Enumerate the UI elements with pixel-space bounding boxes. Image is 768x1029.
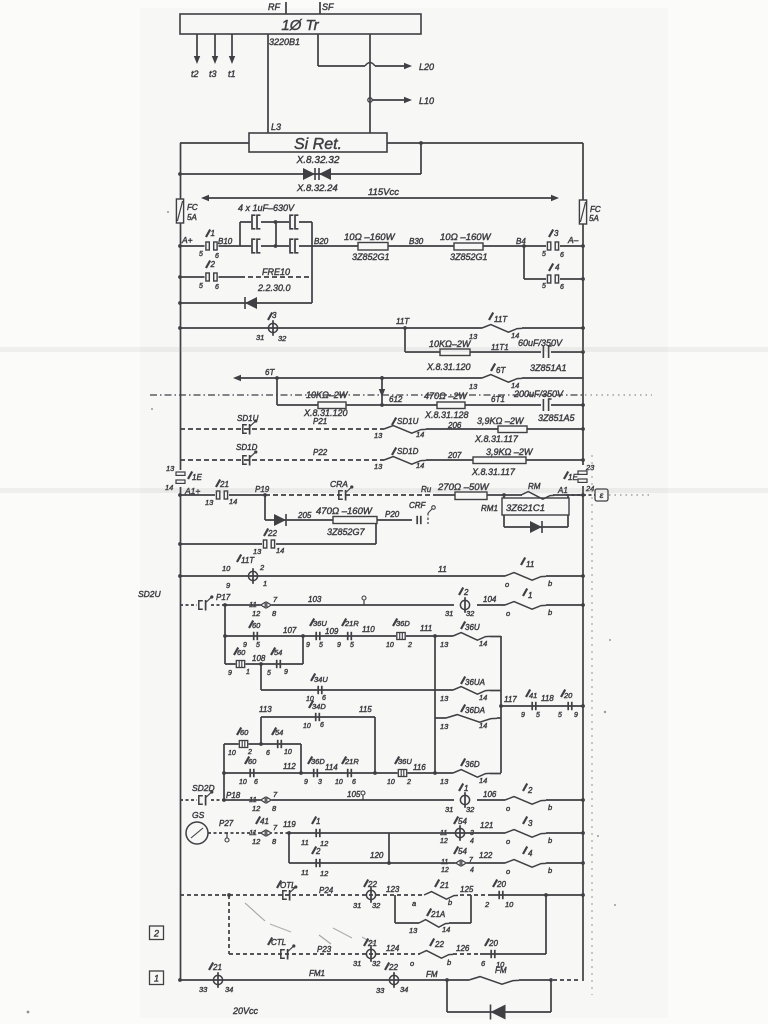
wire scan noise column (27, 455, 592, 1013)
contact 21R (10-6) lower (335, 757, 359, 787)
wire Si Ret to left rail (180, 142, 249, 144)
node row544 rail (178, 542, 182, 546)
node row773 junction 435 (433, 771, 437, 775)
wire left rail upper (180, 143, 182, 470)
node 113 bottom junction (259, 742, 263, 746)
label 41 flag (256, 817, 269, 827)
wire riser P19 to row520 (264, 495, 266, 520)
label 119 (283, 820, 296, 829)
wire row 773 (224, 772, 435, 774)
label 110 (362, 625, 375, 634)
connector pins 11-7/12-8 row800 (249, 790, 278, 813)
contact 21R (9-5) (337, 619, 359, 650)
wire riser 119 833-863 (288, 833, 290, 863)
contact 34U (10-6) (306, 674, 328, 704)
wire riser 744-773 (300, 744, 302, 773)
label B20 (314, 237, 329, 246)
contact SD2D pressure (199, 790, 214, 805)
capacitor C-top-left (251, 215, 261, 230)
diode pair X.8.32.24 (296, 168, 338, 194)
contact 1 (31-32) phi (445, 784, 475, 815)
contact 60 (9-5) (243, 621, 261, 650)
wire row 605 (225, 604, 583, 606)
connector 54 row863 (441, 847, 474, 875)
contact 21 (31-32) phi ctl (353, 939, 381, 969)
node P18 junction (222, 798, 226, 802)
label Ru (421, 485, 432, 494)
switch 36UA (13-14) (440, 677, 490, 704)
contact 1 (5-6) (199, 229, 219, 260)
wire vert P17-664 (224, 605, 226, 664)
contact 3 (31-32) phi (256, 311, 287, 343)
wire FM diode loop (447, 980, 551, 1012)
label 207 (447, 451, 462, 460)
rectifier Si Ret box (249, 133, 387, 166)
wire Tr to Si Ret left (267, 34, 269, 133)
label 116 (413, 763, 426, 772)
node 108 junction (259, 662, 263, 666)
fuse FC 5A left (176, 199, 197, 223)
wire GS dash to P27 (208, 832, 225, 834)
label A1+ (184, 486, 200, 496)
wire row OTL right solid (488, 894, 583, 896)
diode D row520 (274, 514, 286, 526)
wire 36U switch stubs (435, 635, 501, 638)
contact 54 (5-9) (267, 648, 288, 678)
node B4 junction (522, 244, 526, 248)
label 115 (359, 705, 372, 714)
wire FM switch to 551 (519, 979, 551, 981)
node junction right of Si Ret (419, 141, 423, 145)
testpoint P27 (225, 833, 229, 842)
node row328 right rail (581, 326, 585, 330)
terminal E box (583, 489, 652, 501)
wire riser 277 to 405 (276, 378, 278, 405)
label 109 (325, 627, 339, 636)
wire 36D switch stubs (435, 772, 501, 775)
label 205 (297, 511, 312, 520)
wire row 328 (180, 327, 583, 329)
wire dashed vert OTL-CTL (228, 895, 230, 954)
contact 36U (9-5) (306, 619, 327, 650)
wire SF input tick (320, 2, 334, 14)
resistor 3.9K-2W upper (474, 416, 527, 444)
label 122 (479, 851, 493, 860)
label P27 (219, 819, 234, 828)
node A1+ rail (178, 493, 182, 497)
contact 20 (2-10) (484, 880, 514, 910)
contact 36D square (10-2) (386, 619, 412, 650)
contact 36U square (10-2) (387, 757, 412, 787)
wire row 6T with left arrow (233, 375, 583, 381)
wire left rail lower (180, 487, 182, 980)
label 125 (460, 885, 474, 894)
wire row CTL right solid (480, 953, 546, 955)
wire dash-dot section line (150, 394, 652, 396)
wire 115Vcc span arrow (201, 187, 559, 201)
node row800 rail (581, 798, 585, 802)
wire RF input tick (268, 2, 286, 14)
node 636 left (223, 634, 227, 638)
contact 1 (11-12) (301, 817, 329, 849)
wire diode row X.8.32.24 (180, 143, 421, 174)
switch 21A (13-14) (409, 909, 450, 936)
wire t1 arrow (228, 34, 236, 79)
wire t3 arrow (209, 34, 218, 79)
contact 21 (33-34) phi fm (199, 963, 233, 995)
testpoint row800 (361, 791, 365, 800)
wire left vert 224 744-800 (223, 744, 225, 800)
wire row 576 (180, 575, 583, 577)
contact 11T phi (10-2/9-1) (222, 555, 267, 591)
label 206 (447, 421, 462, 430)
label 105 (347, 790, 361, 799)
node row2 left rail (178, 275, 182, 279)
wire SD2U to P17 (211, 604, 225, 606)
wire row 664 (225, 663, 303, 665)
wire row 717 (261, 716, 375, 718)
label P23 (317, 945, 332, 954)
label 118 (541, 694, 554, 703)
label 612 (389, 395, 403, 404)
switch 11T (13-14) (469, 313, 522, 342)
contact 21 (13-14) (205, 480, 237, 508)
wire scan paper tint (140, 8, 668, 1018)
capacitor C-bot-left (251, 239, 261, 254)
switch 11 (a-b) (505, 558, 552, 590)
node row773 left (222, 771, 226, 775)
wire L20 horizontal with crossover hop (318, 62, 434, 72)
switch 3 (a-b) (505, 817, 552, 847)
node 107 junction (301, 634, 305, 638)
wire SD2D dash from rail (180, 799, 197, 801)
label 103 (308, 595, 322, 604)
contact SD2U pressure (199, 595, 214, 610)
node FM1 left rail (178, 978, 182, 982)
wire riser 107 636-664 (302, 636, 304, 664)
wire right rail upper (582, 143, 584, 465)
wire riser 113 717-744 (260, 717, 262, 744)
wire A1 dash to rail (566, 494, 583, 496)
testpoint row605 (362, 596, 366, 605)
node riser382 top (380, 376, 384, 380)
node row706 rail (581, 704, 585, 708)
node P17 junction (223, 603, 227, 607)
label 11T1 (491, 343, 509, 352)
contact 22 (33-34) phi fm (376, 963, 408, 996)
wire box left vert 435 (434, 636, 436, 773)
label 6T (265, 368, 275, 377)
switch 6T (13-14) (469, 364, 522, 392)
label B10 (218, 237, 233, 246)
contact 60 square (9-1) (228, 648, 250, 678)
resistor 10K-2W second X.8.31.120 (303, 390, 349, 418)
wire riser 115 717-773 (374, 717, 376, 773)
label 3220B1 (269, 37, 300, 47)
label A- (567, 235, 579, 245)
label 124 (386, 944, 400, 953)
label 117 (504, 695, 517, 704)
wire row 863 (289, 862, 583, 864)
contact 34D (10-6) (303, 701, 326, 731)
node SD1D rail (581, 458, 585, 462)
node 120 junction (387, 861, 391, 865)
wire row 520 (265, 519, 412, 521)
connector pins 11-7/12-8 row605 (249, 595, 278, 618)
wire CRA dashed link (265, 494, 437, 496)
resistor Ru 270ohm-50W (437, 482, 583, 500)
wire 11T riser (404, 328, 406, 352)
relay FRE10 label (257, 267, 291, 293)
capacitor 200uF/350V (513, 389, 576, 423)
wire SD2U dash from rail (180, 604, 197, 606)
wire scan streak 1 (0, 347, 768, 352)
switch 36DA (13-14) (435, 705, 501, 732)
node row605 rail (581, 603, 585, 607)
node diode row left rail (178, 172, 182, 176)
label 123 (386, 885, 400, 894)
label 114 (325, 763, 338, 772)
wire riser 376 row520 to row544 (375, 524, 377, 545)
contact 2 (31-32) phi (445, 588, 475, 619)
wire diode row 303 (180, 302, 312, 304)
node 6T junction 277 (275, 376, 279, 380)
switch RM (521, 482, 554, 500)
node 546 junction (544, 893, 548, 897)
transformer 1-phase Tr box (180, 14, 421, 34)
contact 60 (10-6) lower (239, 757, 258, 787)
capacitor C-bot-right (289, 239, 299, 254)
contact 3 (5-6) (542, 229, 564, 259)
label 4 x 1uF-630V (238, 203, 295, 213)
resistor RM1 box 3Z621C1 (481, 498, 569, 515)
label FM1 (309, 969, 325, 978)
node A- rail (581, 244, 585, 248)
node P19 junction (263, 493, 267, 497)
contact CRA pressure (330, 479, 353, 501)
diode D RM loop (530, 521, 542, 533)
contact 2 (5-6) (199, 260, 219, 291)
node row576 left rail (178, 574, 182, 578)
diode D row303 (245, 297, 257, 309)
wire row A1+ solid (180, 494, 265, 496)
label 107 (283, 626, 297, 635)
node row833 rail (581, 831, 585, 835)
connector 1E right rail pins 23-24 (564, 463, 595, 493)
resistor 3.9K-2W lower (471, 447, 534, 477)
capacitor 60uF/350V (518, 338, 567, 373)
contact 22 (31-32) phi otl (353, 880, 381, 911)
wire RM1 diode loop (504, 495, 568, 527)
wire row 544 (180, 543, 376, 545)
wire 21A loop (395, 895, 471, 923)
wire row 744 (224, 743, 301, 745)
contact OTL (277, 881, 297, 901)
contact P20 bars (417, 516, 421, 524)
label P22 (313, 448, 328, 457)
node 115 bottom junction (373, 771, 377, 775)
switch 36U (13-14) (440, 622, 490, 650)
wire scribble marks (245, 903, 374, 944)
label P19 (255, 485, 270, 494)
node 6T junction 382 (380, 376, 384, 380)
wire scan streak 2 (0, 488, 768, 493)
label 112 (283, 762, 296, 771)
wire riser 382 with down arrow (379, 378, 385, 405)
wire FRE10 dashed link (240, 276, 312, 278)
resistor R 10ohm-160W first (344, 232, 396, 262)
contact 20 (5-9) (558, 690, 578, 720)
label 126 (456, 944, 470, 953)
node 11T riser top (403, 326, 407, 330)
switch 36D (13-14) (440, 759, 490, 787)
wire GS row to junction (225, 832, 289, 834)
switch SD1U (13-14) (374, 417, 426, 440)
node A+ rail (178, 244, 182, 248)
wire contact4 row (524, 278, 583, 280)
label P20 (385, 510, 400, 519)
contact 60 square (10-2) (228, 728, 252, 758)
label SD2U (138, 589, 162, 599)
label P24 (319, 886, 334, 895)
label A+ (181, 235, 193, 245)
label A1 (557, 486, 568, 495)
wire row 636 (225, 635, 435, 637)
contact CTL (268, 938, 295, 960)
switch 1 (a-b) (505, 589, 552, 619)
node row863 rail (581, 861, 585, 865)
diode D FM (491, 1005, 506, 1020)
node L10 junction (368, 98, 372, 102)
wire row OTL dashed (180, 894, 488, 896)
contact SD1U pressure (237, 414, 259, 435)
wire scan speckles (151, 211, 616, 906)
node bank bottom mid (274, 244, 278, 248)
node row576 right rail (581, 574, 585, 578)
label B4 (516, 237, 526, 246)
label P21 (313, 417, 327, 426)
wire FM dash to rail (553, 979, 581, 981)
wire row 833 (289, 832, 583, 834)
node row328 left rail (178, 326, 182, 330)
contact 4 (5-6) (542, 263, 564, 291)
wire Tr to L10 vertical (369, 34, 371, 133)
node row4 right rail (581, 277, 585, 281)
wire row 706 (501, 705, 583, 707)
label P17 (216, 593, 231, 602)
resistor 470ohm-2W X.8.31.128 (424, 391, 469, 420)
generator GS (186, 810, 208, 844)
resistor R 10ohm-160W second (440, 232, 492, 262)
wire row SD1D dashed (180, 459, 583, 461)
contact 41 (9-5) (521, 690, 540, 720)
contact 54 phi (11-12/3-4) (440, 817, 474, 846)
connector 1E left rail pins 13-14 (165, 464, 202, 492)
terminal box 1 (150, 971, 164, 985)
node row895 rail (581, 893, 585, 897)
wire row A+ main (180, 245, 583, 247)
switch 4 (a-b) (505, 847, 552, 877)
node 112 junction (299, 771, 303, 775)
node 119 junction (287, 831, 291, 835)
label P18 (226, 791, 241, 800)
resistor 470ohm-160W (316, 506, 377, 537)
label B30 (409, 237, 424, 246)
switch 22 (o-b) (410, 939, 453, 969)
wire contact4 riser from B4 (523, 246, 525, 279)
connector pins 11-7/12-8 row833 (249, 823, 278, 846)
fuse FC 5A right (579, 200, 600, 224)
node row A1 rail (581, 493, 585, 497)
wire Tr tap L20 vertical (317, 34, 319, 66)
switch 21 (a-b) (412, 880, 458, 909)
node row405 rail (581, 403, 585, 407)
label 120 (370, 851, 384, 860)
wire riser 108 664-690 (260, 664, 262, 690)
switch FM (469, 966, 519, 985)
contact 54 (6-10) (266, 728, 292, 758)
label 104 (483, 595, 497, 604)
node 111 junction (433, 634, 437, 638)
node FM junction left (445, 978, 449, 982)
wire row FM1 (180, 979, 469, 981)
label 20Vcc (232, 1006, 259, 1016)
wire L10 horizontal (372, 96, 434, 106)
label 113 (259, 705, 272, 714)
label 108 (252, 654, 266, 663)
label SD2D (192, 783, 215, 793)
capacitor bank 4x1uF-630V wires (240, 222, 312, 303)
contact SD1D pressure (236, 443, 258, 466)
contact 22 (13-14) (253, 529, 284, 557)
wire row SD1U dashed (180, 428, 583, 430)
label 111 (420, 624, 432, 633)
label 106 (483, 790, 497, 799)
contact CRF (409, 501, 435, 524)
wire 36UA switch stubs (435, 689, 501, 692)
label FM left (426, 970, 438, 979)
switch 2 (a-b) (505, 784, 552, 814)
label 121 (480, 821, 493, 830)
wire right rail lower (582, 486, 584, 981)
node SD1U rail (581, 427, 585, 431)
node riser382 bottom (380, 403, 384, 407)
node bank top mid (274, 220, 278, 224)
wire row 690 (261, 689, 435, 691)
wire row FRE10 solid part (180, 276, 240, 278)
node FM junction right (549, 978, 553, 982)
label 11T node (396, 317, 410, 326)
contact 20 (6-10) (481, 939, 505, 970)
wire row 405 (277, 404, 583, 406)
wire row 800 (224, 799, 583, 801)
node row352 rail (581, 350, 585, 354)
label L3 (271, 122, 281, 132)
wire row 352 (405, 351, 583, 353)
capacitor C-top-right (289, 215, 299, 230)
wire Si Ret to right rail (387, 142, 583, 144)
wire box right vert 501 (500, 636, 502, 773)
terminal box 2 (150, 926, 164, 940)
contact 36D (9-3) (304, 757, 325, 787)
label 6T1 (491, 395, 505, 404)
node OTL left junction (227, 893, 231, 897)
label net 11 (438, 564, 447, 574)
wire riser 389 833-863 (388, 833, 390, 863)
node diode row rail (178, 301, 182, 305)
contact 2 (11-12) (301, 847, 329, 879)
wire SD2D to P18 (211, 799, 224, 801)
